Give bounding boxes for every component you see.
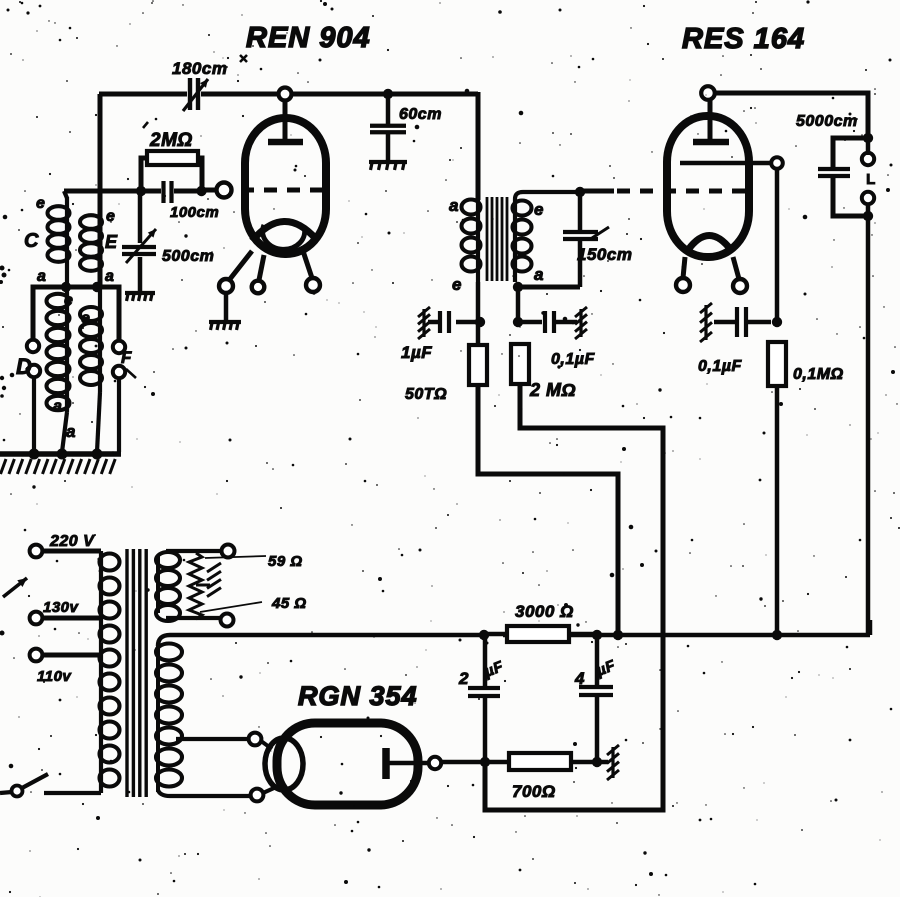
callout 59 Ohm xyxy=(205,556,266,558)
transformer T2 filament winding 4V xyxy=(156,551,221,621)
capacitor 0,1uF (grid) xyxy=(518,311,577,333)
wire 220V to primary xyxy=(42,549,101,554)
label D xyxy=(16,354,32,379)
wire grid RES164 solid part xyxy=(580,189,614,194)
svg-text:110v: 110v xyxy=(37,668,72,685)
terminal 130V xyxy=(30,612,43,625)
svg-text:45 Ω: 45 Ω xyxy=(271,595,307,612)
svg-text:e: e xyxy=(534,200,544,219)
wire HV bottom to rectifier filament xyxy=(158,790,250,796)
transformer T1 core xyxy=(487,197,507,281)
svg-text:220 V: 220 V xyxy=(49,533,95,550)
terminal F lower xyxy=(113,366,125,378)
label 1uF xyxy=(401,343,432,362)
tube REN904 leg terminal right xyxy=(306,278,320,292)
wire 130V tap xyxy=(42,616,101,621)
node coil F at ground xyxy=(92,449,103,460)
tube RES164 leg terminal left xyxy=(676,278,690,292)
svg-text:180cm: 180cm xyxy=(172,59,227,78)
resistor 700 Ohm xyxy=(441,753,608,770)
wire 110v tap xyxy=(42,653,101,658)
label e (T1 secondary top) xyxy=(534,200,544,219)
node bias node left xyxy=(480,757,490,767)
wire top rail left segment xyxy=(99,92,187,97)
capacitor 150cm xyxy=(563,192,609,287)
tube REN904 top cap terminal xyxy=(279,88,292,101)
capacitor 0,1uF (screen) xyxy=(714,307,771,337)
resistor 0,1M-ohm xyxy=(768,342,786,386)
node T1 secondary bottom xyxy=(513,282,523,292)
asterisk mark xyxy=(240,55,247,62)
node speaker bottom junction xyxy=(863,211,873,221)
label 0,1MOhm xyxy=(793,366,844,383)
label e (coil D top) xyxy=(64,292,73,309)
node rail right of 3000 xyxy=(592,630,602,640)
tube RGN354 anode lead xyxy=(389,761,428,766)
coil D winding xyxy=(47,287,70,452)
label REN904 xyxy=(246,22,371,54)
tube RGN354 filament loop xyxy=(265,738,303,790)
terminal D upper xyxy=(27,340,39,352)
svg-text:L: L xyxy=(866,171,876,188)
svg-text:2: 2 xyxy=(458,669,469,688)
transformer T1 primary winding xyxy=(462,200,481,283)
wire top rail middle segment xyxy=(201,92,478,97)
label 2 uF xyxy=(458,658,506,688)
wire HV tap to rectifier filament xyxy=(176,737,248,741)
tube RES164 cathode arc xyxy=(688,236,731,251)
svg-text:0,1µF: 0,1µF xyxy=(698,358,742,375)
wire speaker return down to rail xyxy=(866,138,871,635)
node junction top rail / 60cm xyxy=(383,89,393,99)
svg-text:0,1MΩ: 0,1MΩ xyxy=(793,366,844,383)
resistor 3000 Ohm xyxy=(484,626,597,642)
svg-text:1µF: 1µF xyxy=(401,343,432,362)
wire junction bar under coils C E xyxy=(33,287,119,341)
resistor R 2M-ohm grid leak xyxy=(141,151,202,189)
label L xyxy=(866,171,876,188)
tick near 2Mohm xyxy=(143,122,148,128)
node screen RC junction xyxy=(772,317,782,327)
tube RES164 grid dashed line xyxy=(617,189,750,194)
svg-text:60cm: 60cm xyxy=(399,106,442,123)
node speaker top junction xyxy=(863,133,873,143)
resistor 50T-ohm xyxy=(469,345,487,385)
tube REN904 envelope xyxy=(245,118,326,254)
tube RES164 screen terminal xyxy=(771,157,783,169)
svg-text:RGN 354: RGN 354 xyxy=(298,681,418,711)
svg-text:e: e xyxy=(64,292,73,309)
tube REN904 grid terminal xyxy=(217,183,232,198)
svg-text:a: a xyxy=(105,268,114,285)
ground under 60cm xyxy=(369,162,407,170)
ground bus bar xyxy=(0,451,121,457)
svg-text:a: a xyxy=(53,398,62,415)
wire grid line xyxy=(64,189,137,194)
svg-text:0,1µF: 0,1µF xyxy=(551,351,595,368)
label e (coil F top) xyxy=(81,310,90,327)
capacitor 180cm (variable, in top rail) xyxy=(183,78,208,111)
wire primary bottom down xyxy=(476,282,481,346)
node coil E bottom xyxy=(92,282,102,292)
svg-text:700Ω: 700Ω xyxy=(512,782,556,801)
tube RGN354 filament terminal upper xyxy=(249,733,272,749)
label e (coil E top) xyxy=(106,208,115,225)
capacitor 60cm to ground xyxy=(370,94,406,160)
ground bus hatching xyxy=(1,459,116,474)
node bias node right xyxy=(592,757,602,767)
chassis mark (0,1uF grid) xyxy=(575,307,587,339)
mains arrow xyxy=(3,578,27,597)
wire 0,1Mohm to rail xyxy=(775,386,780,633)
terminal 110v xyxy=(30,649,43,662)
resistor hum balance zigzag xyxy=(189,553,202,619)
label C xyxy=(24,230,39,252)
hum balance tap with chassis hatch xyxy=(196,563,221,597)
svg-text:4: 4 xyxy=(574,669,585,688)
svg-text:100cm: 100cm xyxy=(170,204,219,221)
node coil C bottom xyxy=(61,282,71,292)
node D at ground xyxy=(29,449,40,460)
label 100cm xyxy=(170,204,219,221)
wire F lower to ground xyxy=(117,378,121,452)
wire left drop from top rail to coil E xyxy=(98,94,103,287)
label 150cm xyxy=(577,245,632,264)
terminal filament top xyxy=(222,545,235,558)
transformer T1 secondary winding xyxy=(513,192,579,282)
wire B+ rail xyxy=(158,620,870,646)
label a (T1 primary top) xyxy=(449,196,459,215)
node grid-leak junction xyxy=(513,317,523,327)
tube REN904 cathode arcs xyxy=(252,221,316,249)
wire secondary bottom down xyxy=(516,287,521,322)
svg-text:F: F xyxy=(121,348,132,367)
resistor 2M-ohm (grid leak R2) xyxy=(511,344,529,384)
coil F winding xyxy=(80,287,102,452)
switch mains xyxy=(0,774,101,797)
node rail 0,1M return xyxy=(772,630,782,640)
tube REN904 leg terminal middle xyxy=(252,281,265,294)
tube RES164 legs xyxy=(683,257,739,279)
svg-text:a: a xyxy=(37,268,46,285)
tube RES164 screen grid line xyxy=(680,161,770,165)
svg-text:a: a xyxy=(66,422,76,441)
label e (coil C top) xyxy=(36,195,45,212)
tube RES164 leg terminal right xyxy=(733,279,747,293)
wire to 100cm cap xyxy=(141,189,161,194)
tube RGN354 anode plate xyxy=(382,748,390,779)
terminal filament bottom xyxy=(221,614,234,627)
tube RES164 top cap terminal xyxy=(701,86,715,100)
svg-text:e: e xyxy=(452,275,462,294)
node T1 primary bottom junction xyxy=(475,317,485,327)
svg-text:50TΩ: 50TΩ xyxy=(405,386,447,403)
svg-text:RES 164: RES 164 xyxy=(682,23,805,55)
tube RGN354 filament terminal lower xyxy=(251,788,274,801)
label 220 V xyxy=(49,533,95,550)
label 45 Ohm xyxy=(271,595,307,612)
node rail 50T return xyxy=(613,630,623,640)
svg-text:500cm: 500cm xyxy=(162,248,214,265)
svg-text:D: D xyxy=(16,354,32,379)
wire REN904 cathode leg to ground xyxy=(224,292,229,321)
label 700 Ohm xyxy=(512,782,556,801)
label e (T1 primary bottom) xyxy=(452,275,462,294)
terminal L upper xyxy=(862,153,874,165)
label a (coil D bottom) xyxy=(66,422,76,441)
svg-text:a: a xyxy=(449,196,459,215)
wire node to grid terminal xyxy=(201,188,217,193)
tube RGN354 envelope xyxy=(277,723,418,805)
label 60cm xyxy=(399,106,442,123)
node grid junction right xyxy=(196,186,206,196)
label 500cm xyxy=(162,248,214,265)
transformer T2 core xyxy=(127,549,146,797)
node grid junction left xyxy=(136,186,146,196)
capacitor 2uF xyxy=(468,635,500,760)
wire top rail corner down to transformer primary xyxy=(476,92,481,200)
tube RES164 envelope xyxy=(667,116,749,257)
label 0,1uF (screen) xyxy=(698,358,742,375)
svg-text:e: e xyxy=(81,310,90,327)
svg-text:e: e xyxy=(36,195,45,212)
label E xyxy=(105,232,118,252)
wire 50Tohm to B+ rail xyxy=(478,385,618,633)
terminal 220V xyxy=(30,545,43,558)
wire 150cm return to secondary bottom xyxy=(518,285,580,290)
svg-text:5000cm: 5000cm xyxy=(796,113,858,130)
capacitor 1uF xyxy=(428,311,478,333)
terminal L lower xyxy=(862,192,874,204)
node T1 secondary top junction xyxy=(575,187,585,197)
capacitor 100cm xyxy=(164,181,172,203)
label 2MOhm xyxy=(149,130,193,151)
svg-text:REN 904: REN 904 xyxy=(246,22,371,54)
svg-text:150cm: 150cm xyxy=(577,245,632,264)
label 4 uF xyxy=(574,657,618,688)
wire 100cm to node xyxy=(174,189,199,194)
label RGN354 xyxy=(298,681,418,711)
svg-text:a: a xyxy=(534,265,544,284)
chassis mark (1uF) xyxy=(418,307,430,339)
svg-text:2MΩ: 2MΩ xyxy=(149,130,193,151)
tube REN904 leg terminal left xyxy=(219,279,233,293)
label a (T1 secondary bottom) xyxy=(534,265,544,284)
label a (coil F bottom) xyxy=(53,398,62,415)
svg-text:C: C xyxy=(24,230,39,252)
chassis mark (0,1uF screen) xyxy=(700,303,712,342)
label RES164 xyxy=(682,23,805,55)
chassis mark (700 Ohm) xyxy=(607,745,619,780)
label 110v xyxy=(37,668,72,685)
capacitor 4uF xyxy=(579,635,613,760)
svg-text:E: E xyxy=(105,232,118,252)
coil E antenna winding xyxy=(80,215,102,271)
label a (coil E bottom) xyxy=(105,268,114,285)
transformer T2 HV winding xyxy=(156,644,182,793)
label 180cm xyxy=(172,59,227,78)
label 59 Ohm xyxy=(268,553,303,570)
capacitor 5000cm xyxy=(818,138,866,216)
coil C antenna winding xyxy=(48,191,70,287)
terminal D lower xyxy=(28,365,40,377)
svg-text:2 MΩ: 2 MΩ xyxy=(529,380,576,400)
label 0,1uF (grid) xyxy=(551,351,595,368)
ground under REN904 xyxy=(209,322,241,330)
svg-text:130v: 130v xyxy=(43,599,80,616)
label F xyxy=(121,348,136,378)
ground under 500cm xyxy=(125,293,155,301)
label a (coil C bottom) xyxy=(37,268,46,285)
node coil D at ground xyxy=(57,449,68,460)
node rail left of 3000 xyxy=(479,630,489,640)
tube REN904 grid dashed line xyxy=(241,188,331,193)
wire 2Mohm down and to bias loop xyxy=(485,384,663,810)
wire RES164 anode top to speaker xyxy=(715,93,868,135)
transformer T2 primary winding xyxy=(100,551,120,793)
wire D lower to ground xyxy=(32,377,36,452)
tube REN904 anode stem and plate xyxy=(268,100,303,142)
tube RES164 anode stem and plate xyxy=(693,100,729,142)
tube RGN354 anode terminal xyxy=(429,757,441,769)
terminal F upper xyxy=(113,341,125,353)
capacitor 500cm variable xyxy=(122,191,156,291)
wire screen down xyxy=(775,169,780,322)
label 50TOhm xyxy=(405,386,447,403)
label 2MOhm (grid leak) xyxy=(529,380,576,400)
tube REN904 legs xyxy=(230,251,312,280)
label 130v xyxy=(43,599,80,616)
label 5000cm xyxy=(796,113,858,130)
svg-text:59 Ω: 59 Ω xyxy=(268,553,303,570)
label 3000 Ohm xyxy=(515,602,574,621)
callout 45 Ohm xyxy=(200,602,262,612)
